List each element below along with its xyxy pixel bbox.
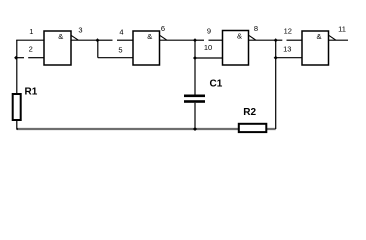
svg-text:6: 6: [161, 24, 165, 33]
svg-text:3: 3: [78, 25, 82, 34]
svg-text:10: 10: [204, 43, 212, 52]
svg-text:R1: R1: [25, 87, 38, 98]
wire pin1 input to U1: [16, 39, 44, 41]
svg-text:5: 5: [118, 46, 122, 55]
wire right rail vertical (pin8 to R2): [275, 40, 277, 129]
gate U2 output inversion wedge: [160, 35, 167, 40]
junction node left rail / pin2: [14, 56, 18, 60]
wire vertical pin3 to pin5: [97, 40, 99, 58]
svg-text:&: &: [58, 32, 63, 41]
svg-text:4: 4: [119, 27, 123, 36]
wire left rail vertical (pin1/pin2 tie to R1): [16, 40, 18, 94]
gate U3 body: [223, 31, 249, 66]
resistor R2 body: [239, 124, 266, 132]
capacitor C1 bottom plate: [184, 100, 205, 103]
wire pin4 input to U2 (with break): [98, 39, 113, 41]
wire pin12 input to U4 (with break): [276, 39, 283, 41]
wire pin9 input to U3 (with break): [195, 39, 204, 41]
capacitor C1 top plate: [184, 95, 205, 98]
svg-text:2: 2: [29, 45, 33, 54]
gate U1 output inversion wedge: [71, 35, 78, 40]
svg-text:12: 12: [284, 27, 292, 36]
svg-text:C1: C1: [210, 79, 223, 90]
svg-text:13: 13: [283, 45, 291, 54]
wire bottom feedback rail: [17, 128, 276, 130]
svg-text:R2: R2: [243, 107, 256, 118]
svg-text:8: 8: [254, 24, 258, 33]
junction node C1 / bottom rail: [193, 127, 197, 131]
junction node pin8/pin12 tie: [274, 38, 278, 42]
wire U4 output (pin 11): [329, 39, 349, 41]
junction node pin10 tap: [193, 56, 197, 60]
wire U2 output (pin 6): [160, 39, 196, 41]
junction node pin6 / C1 top: [193, 38, 197, 42]
junction node pin3/pin5 tie: [96, 38, 100, 42]
wire C1 lower vertical: [194, 103, 196, 129]
gate U4 body: [302, 31, 329, 65]
wire pin5 input to U2: [98, 57, 133, 59]
wire pin2 input to U1 (with break): [17, 57, 24, 59]
svg-text:11: 11: [338, 24, 346, 33]
svg-text:&: &: [237, 32, 242, 41]
gate U4 output inversion wedge: [329, 35, 336, 40]
svg-text:1: 1: [29, 27, 33, 36]
wire pin10 input to U3: [195, 57, 223, 59]
gate U1 body: [44, 31, 71, 65]
junction node pin13 tap: [274, 56, 278, 60]
wire U1 output (pin 3): [71, 39, 98, 41]
wire R1 bottom to bottom rail: [17, 120, 18, 129]
gate U3 output inversion wedge: [249, 35, 256, 40]
gate U2 body: [133, 31, 160, 65]
svg-text:&: &: [147, 32, 152, 41]
resistor R1 body: [13, 94, 21, 120]
wire U3 output (pin 8): [249, 39, 276, 41]
svg-text:&: &: [316, 32, 321, 41]
wire C1 upper vertical: [194, 40, 196, 95]
svg-text:9: 9: [207, 27, 211, 36]
wire pin13 input to U4: [276, 57, 302, 59]
